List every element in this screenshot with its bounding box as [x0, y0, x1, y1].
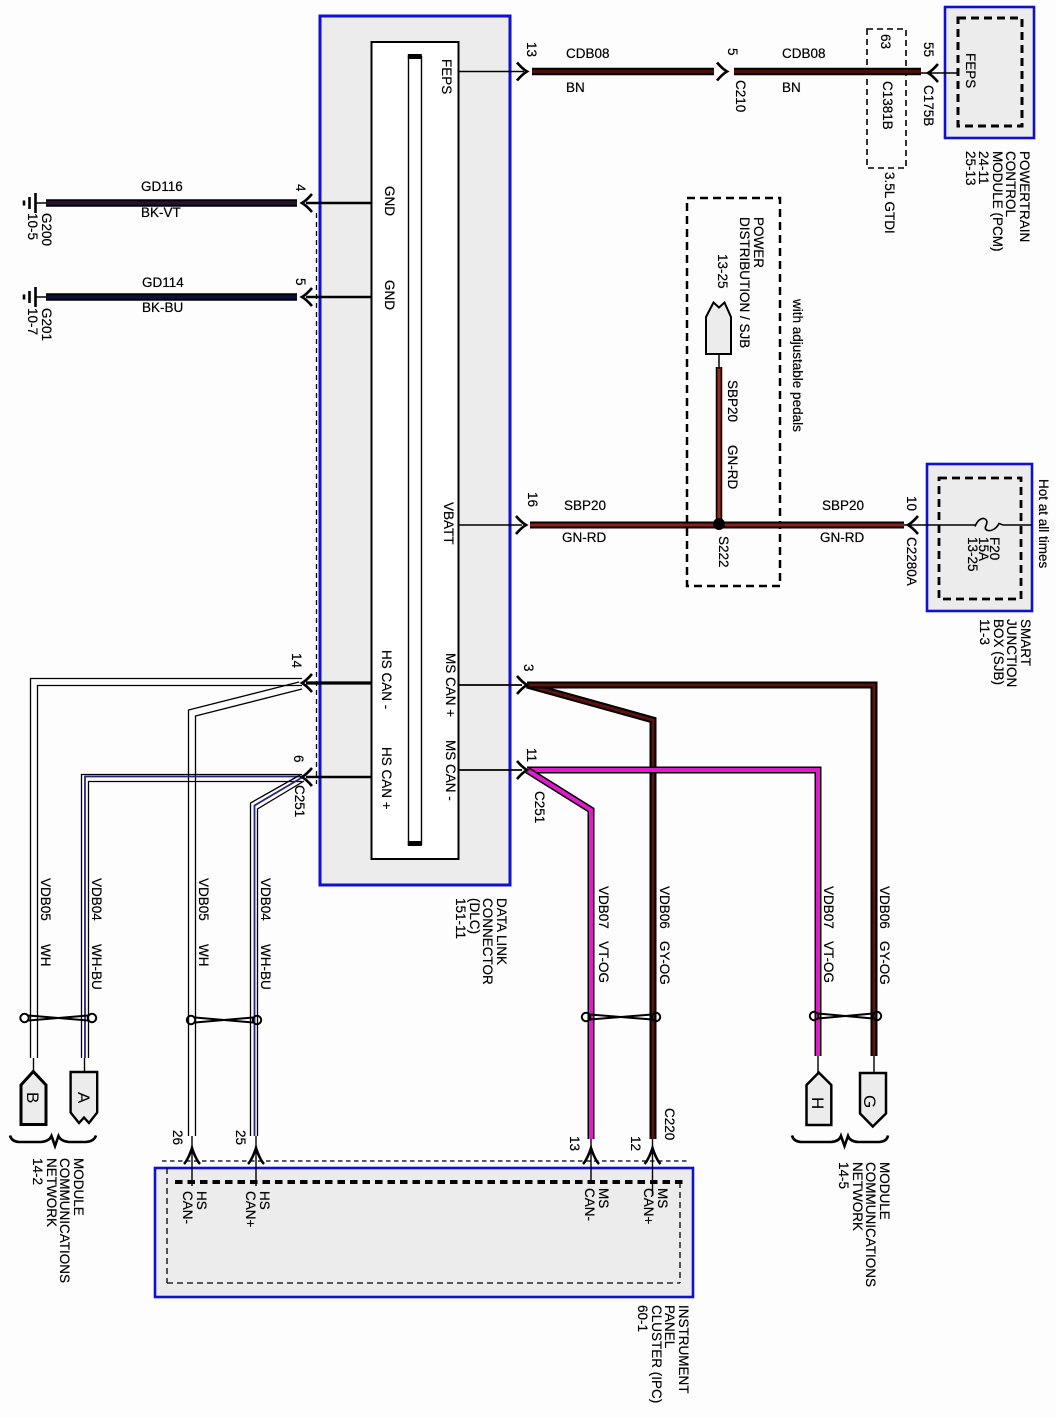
label with adjustable pedals: [791, 299, 805, 432]
IPC pin line 25: [255, 1136, 257, 1186]
arrow pin10 C2280A (left): [908, 516, 918, 534]
label WH pair3: [197, 944, 211, 967]
label pin 10: [905, 496, 919, 511]
arrow pin16 (right): [516, 516, 526, 534]
label DATA LINK CONNECTOR (DLC) 151-11: [454, 898, 508, 985]
label BN segment1: [566, 81, 585, 94]
label VT-OG left: [597, 941, 611, 983]
brace under H and G: [792, 1136, 888, 1147]
label MS CAN -: [444, 740, 458, 801]
label C175B: [922, 85, 936, 126]
connector A: [71, 1072, 98, 1123]
label MODULE COMMUNICATIONS NETWORK 14-5: [837, 1162, 891, 1287]
label 63: [879, 34, 893, 49]
IPC pin line 12: [652, 1139, 654, 1196]
wire VDB06 GY-OG left branch (pin3 to IPC pin12): [527, 685, 653, 1139]
label GN-RD right: [820, 531, 864, 544]
label MODULE COMMUNICATIONS NETWORK 14-2: [31, 1158, 85, 1283]
arrow IPC pin12 (up): [645, 1148, 661, 1164]
wire CDB08 BN segment1: [532, 68, 714, 76]
wire VDB07 VT-OG right branch (pin11 to connector H): [527, 770, 818, 1056]
label pin 55: [922, 42, 936, 57]
stem to connector A: [84, 1058, 86, 1073]
label HS CAN +: [380, 747, 394, 810]
label C2280A: [905, 537, 919, 586]
stem to connector H: [817, 1056, 819, 1073]
label pin 26: [171, 1130, 185, 1145]
IPC pin line 13: [590, 1139, 592, 1183]
label POWERTRAIN CONTROL MODULE (PCM): [964, 151, 1032, 252]
ground G201: [24, 287, 47, 307]
label POWER DISTRIBUTION / SJB: [738, 217, 765, 348]
wire GD116 BK-VT (thick): [46, 199, 297, 207]
label pin 4: [294, 184, 308, 192]
label 13-25 power dist: [716, 254, 730, 289]
wire pair VDB04 WH-BU (pin6 to connector A): [82, 775, 303, 1059]
twisted pair symbol IPC 26/25 pair: [187, 1016, 261, 1024]
connector DLC box (DATA LINK CONNECTOR): [320, 16, 510, 885]
label GN-RD vertical: [726, 445, 740, 489]
wire pair VDB05 WH (pin14 to connector B): [31, 679, 303, 1059]
label pin 13 DLC: [525, 42, 539, 57]
label GY-OG right: [878, 941, 892, 985]
label GD114: [142, 276, 184, 289]
pin stub HS CAN+ pin6: [306, 776, 372, 779]
twisted pair symbol B/A pair: [20, 1014, 96, 1022]
label WH-BU pair2: [90, 944, 104, 990]
label VBATT: [442, 502, 456, 545]
wire pair VDB04 WH-BU (pin6 to IPC pin25): [251, 775, 305, 1136]
label SBP20 left: [564, 499, 606, 512]
label S222: [717, 536, 731, 568]
arrow pin13 DLC (right): [517, 63, 527, 81]
arrow pin4 (left): [302, 194, 312, 212]
stem to connector B: [33, 1058, 35, 1072]
label C220: [663, 1108, 677, 1140]
wire VDB06 GY-OG right branch (pin3 to connector G): [527, 685, 874, 1056]
label C210: [734, 80, 748, 112]
dashed harness boundary line left of DLC: [316, 213, 318, 784]
label SMART JUNCTION BOX (SJB) 11-3: [978, 619, 1032, 687]
label GD116: [141, 180, 183, 193]
label connector letter G: [861, 1095, 878, 1108]
label VDB07 right: [822, 886, 836, 929]
label pin 6: [292, 755, 306, 763]
fuse element F20 15A: [975, 519, 1003, 531]
label FEPS pin DLC: [440, 59, 454, 94]
label pin 3: [522, 664, 536, 672]
label connector letter A: [75, 1092, 92, 1103]
stem to connector G: [873, 1056, 875, 1073]
label F20 15A 13-25: [967, 537, 1000, 572]
arrow pin3 (right): [517, 676, 527, 694]
label pin 25: [234, 1130, 248, 1145]
twisted pair symbol H/G pair: [810, 1012, 881, 1020]
wire GD114 BK-BU (thick): [46, 293, 297, 301]
arrow C210 pin5 (right): [717, 63, 727, 81]
label VDB06 left: [658, 886, 672, 929]
label BN segment2: [782, 81, 801, 94]
label pin 14: [290, 653, 304, 668]
arrow pin5 (left): [302, 288, 312, 306]
label C251 right: [533, 791, 547, 823]
label pin 16: [526, 492, 540, 507]
label HS CAN- IPC: [181, 1191, 208, 1224]
twisted pair symbol MS left pair: [582, 1013, 660, 1021]
connector B: [21, 1072, 46, 1125]
label pin 13 IPC: [568, 1136, 582, 1151]
arrow IPC pin13 (up): [583, 1148, 599, 1164]
label VT-OG right: [822, 941, 836, 983]
brace under B: [10, 1136, 96, 1147]
pin stub VBATT pin16: [458, 524, 522, 526]
label VDB05 pair1: [39, 878, 53, 921]
ground G200: [24, 193, 47, 213]
arrow IPC pin25 (up): [248, 1148, 264, 1164]
label C1381B: [881, 81, 895, 130]
pin stub GND pin5: [306, 296, 372, 299]
label pin 11: [525, 748, 539, 762]
label VDB04 pair2: [90, 878, 104, 921]
label ground G200 10-5: [26, 213, 53, 246]
label CDB08 segment2: [782, 47, 826, 60]
IPC pin line 26: [191, 1136, 193, 1186]
connector G: [860, 1073, 886, 1127]
arrow pin14 (left): [302, 674, 312, 692]
label pin 5 GND: [294, 278, 308, 286]
wire SBP20 GN-RD horizontal: [530, 522, 904, 529]
label MS CAN+ IPC: [642, 1188, 669, 1224]
arrow pin6 (left): [302, 768, 312, 786]
label ground G201 10-7: [26, 308, 53, 341]
label FEPS inside PCM: [964, 53, 978, 88]
wire CDB08 BN segment2: [734, 68, 921, 76]
module SJB box (SMART JUNCTION BOX): [927, 464, 1032, 611]
label SBP20 right: [822, 499, 864, 512]
label VDB05 pair3: [197, 878, 211, 921]
dashed inline connector box 63 C1381B: [867, 29, 906, 168]
pin stub HS CAN- pin14: [306, 681, 372, 684]
label connector letter H: [809, 1097, 826, 1109]
pin stub FEPS pin13: [458, 71, 524, 73]
label WH-BU pair4: [259, 944, 273, 990]
module IPC box (INSTRUMENT PANEL CLUSTER): [155, 1161, 693, 1297]
connector H: [807, 1073, 832, 1126]
label SBP20 vertical: [726, 380, 740, 422]
pin stub MS CAN- pin11: [458, 769, 522, 771]
wire VDB07 VT-OG left branch (pin11 to IPC pin13): [527, 770, 591, 1139]
label GY-OG left: [658, 941, 672, 985]
wire SBP20 GN-RD vertical from power distribution: [716, 367, 723, 521]
label connector letter B: [24, 1092, 41, 1103]
pin stub MS CAN+ pin3: [458, 684, 522, 686]
splice S222: [713, 518, 725, 530]
label C251 left: [293, 785, 307, 817]
wire pair VDB05 WH (pin14 to IPC pin26): [189, 682, 303, 1136]
label VDB06 right: [878, 886, 892, 929]
label 3.5L GTDI: [883, 172, 897, 234]
arrow IPC pin26 (up): [184, 1148, 200, 1164]
label GN-RD left: [562, 531, 606, 544]
label pin 5 C210: [726, 48, 740, 56]
label WH pair1: [39, 944, 53, 967]
label MS CAN- IPC: [583, 1188, 610, 1221]
label CDB08 segment1: [566, 47, 610, 60]
label GND pin4: [383, 186, 397, 216]
arrow pin55 C175B (left): [928, 64, 938, 82]
label VDB07 left: [597, 886, 611, 929]
connector pentagon in power distribution box: [706, 303, 731, 370]
label MS CAN +: [444, 653, 458, 717]
arrow pin11 C251 (right): [517, 761, 527, 779]
wire into SJB pin10 + fuse F20: [904, 524, 1032, 526]
label BK-BU: [142, 301, 183, 314]
label GND pin5: [383, 280, 397, 310]
module PCM box (POWERTRAIN CONTROL MODULE): [945, 7, 1034, 138]
label HS CAN+ IPC: [244, 1191, 271, 1227]
label BK-VT: [141, 206, 181, 219]
label HS CAN -: [380, 650, 394, 709]
pin stub GND pin4: [306, 202, 372, 205]
label INSTRUMENT PANEL CLUSTER (IPC) 60-1: [636, 1305, 690, 1403]
wire into PCM pin55: [921, 72, 958, 74]
label VDB04 pair4: [259, 878, 273, 921]
dashed box POWER DISTRIBUTION / SJB: [687, 198, 780, 586]
label Hot at all times: [1037, 479, 1051, 568]
label pin 12 IPC: [629, 1136, 643, 1151]
